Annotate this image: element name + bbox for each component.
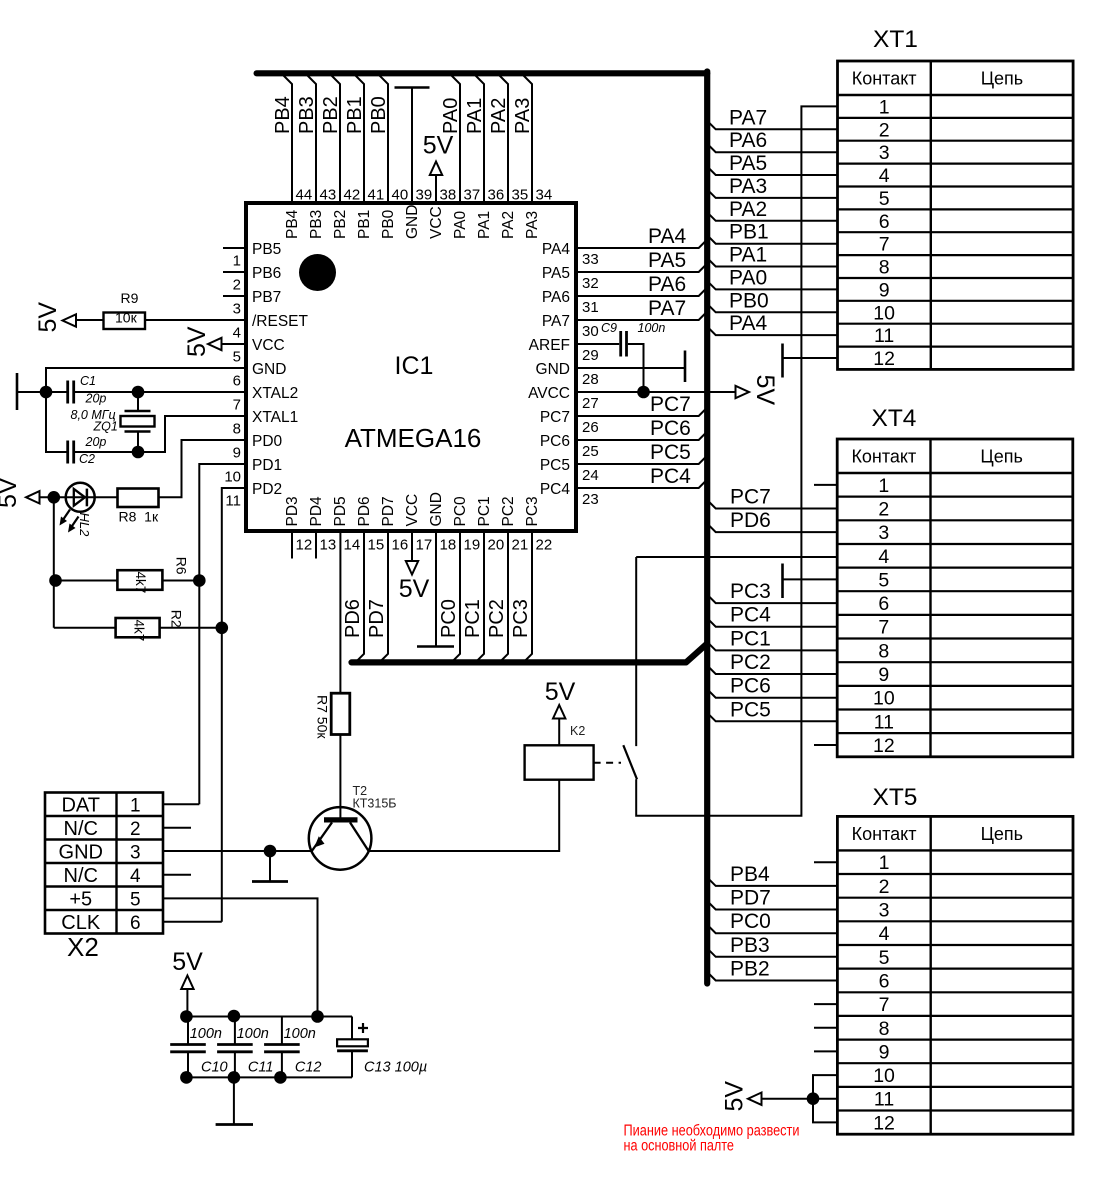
svg-text:PA2: PA2 xyxy=(488,98,510,134)
svg-text:7: 7 xyxy=(879,994,890,1016)
transistor T2 КТ315Б xyxy=(309,807,372,870)
wire pin 34 PA3 to bus xyxy=(524,76,533,204)
power 5V arrow (pin 5) xyxy=(208,338,222,350)
svg-text:ZQ1: ZQ1 xyxy=(93,420,118,434)
svg-text:Цепь: Цепь xyxy=(981,824,1023,844)
svg-text:12: 12 xyxy=(873,348,895,370)
svg-text:6: 6 xyxy=(233,373,241,390)
svg-text:VCC: VCC xyxy=(404,494,421,527)
svg-text:4: 4 xyxy=(233,325,241,342)
wire bus vertical xyxy=(704,72,710,984)
wire 5V to LED xyxy=(40,496,118,498)
power 5V arrow (K2) xyxy=(553,705,565,719)
wire net PB3 from bus to XT5 pin 5 xyxy=(707,948,837,957)
svg-text:3: 3 xyxy=(879,900,890,922)
capacitor C10 xyxy=(187,1017,189,1044)
wire C1 to pin 7 XTAL2 xyxy=(75,391,246,393)
terminal bar at XT1 pin 12 xyxy=(781,344,784,378)
svg-text:5V: 5V xyxy=(751,375,779,406)
svg-text:22: 22 xyxy=(536,537,553,554)
svg-text:34: 34 xyxy=(536,187,553,204)
ground bar (pin 39) xyxy=(395,86,430,89)
wire net PB2 from bus to XT5 pin 6 xyxy=(707,972,837,981)
wire R2 left xyxy=(54,627,116,629)
svg-text:PB6: PB6 xyxy=(252,265,281,282)
wire pin 37 PA0 to bus xyxy=(452,76,461,204)
svg-text:18: 18 xyxy=(440,537,457,554)
svg-text:PB0: PB0 xyxy=(368,96,390,134)
wire relay contact to XT1 pin 1 xyxy=(636,106,837,815)
svg-text:43: 43 xyxy=(320,187,337,204)
wire net PA6 from bus to XT1 pin 3 xyxy=(707,144,837,153)
svg-text:PA5: PA5 xyxy=(648,249,686,272)
node HL2 junction xyxy=(48,491,61,504)
wire net PC4 from bus to XT4 pin 7 xyxy=(707,618,837,627)
svg-text:PD0: PD0 xyxy=(252,433,283,450)
node XTAL1-crystal junction xyxy=(132,446,145,459)
svg-text:PA7: PA7 xyxy=(542,313,570,330)
wire pin 20 PC1 to bottom bus xyxy=(476,531,485,662)
wire relay K2 to 5V arrow xyxy=(558,719,560,746)
svg-text:C13 100µ: C13 100µ xyxy=(364,1060,427,1076)
wire net PA5 from bus to XT1 pin 4 xyxy=(707,167,837,176)
svg-text:PA0: PA0 xyxy=(452,210,469,239)
resistor R6 body xyxy=(117,570,162,590)
svg-text:PA4: PA4 xyxy=(729,312,767,335)
svg-text:2: 2 xyxy=(130,819,141,840)
svg-text:PA3: PA3 xyxy=(729,175,767,198)
wire R9 to pin 4 /RESET xyxy=(145,319,246,321)
svg-text:19: 19 xyxy=(464,537,481,554)
wire pin 27 AVCC to 5V arrow xyxy=(576,391,736,393)
svg-text:31: 31 xyxy=(582,299,599,316)
LED HL2 light arrows xyxy=(62,510,71,523)
node R6 right junction xyxy=(193,574,206,587)
svg-text:R7 50к: R7 50к xyxy=(315,695,331,739)
wire XT1 pin 12 to bar xyxy=(783,357,838,359)
svg-text:16: 16 xyxy=(392,537,409,554)
wire R7 to T2 base xyxy=(339,735,341,819)
wire net PC7 from bus to XT4 pin 2 xyxy=(707,500,837,509)
node crystal-gnd junction xyxy=(40,386,53,399)
wire pin 28 GND to ground bar xyxy=(576,367,684,369)
wire pin 3 stub xyxy=(223,295,246,297)
svg-text:2: 2 xyxy=(879,119,890,141)
svg-text:VCC: VCC xyxy=(252,337,285,354)
svg-text:10: 10 xyxy=(873,688,895,710)
node XT5 5V junction xyxy=(807,1092,820,1105)
svg-text:8: 8 xyxy=(233,421,241,438)
wire XT5 pin 9 stub xyxy=(814,1050,837,1052)
wire pin 39 GND to ground bar xyxy=(411,88,413,204)
svg-text:PA1: PA1 xyxy=(729,244,767,267)
node AVCC-C9 junction xyxy=(637,386,650,399)
svg-text:PB1: PB1 xyxy=(356,210,373,239)
svg-text:33: 33 xyxy=(582,251,599,268)
wire pin 17 VCC to 5V arrow xyxy=(411,531,413,561)
capacitor C1 plates xyxy=(66,381,69,404)
svg-text:AVCC: AVCC xyxy=(528,385,570,402)
terminal bar at XT4 pin 5 xyxy=(781,564,784,599)
wire net PC5 from bus to XT4 pin 11 xyxy=(707,713,837,722)
svg-text:PC5: PC5 xyxy=(730,698,771,721)
wire R6 left xyxy=(54,580,118,582)
wire pin 14 PD5 down to R7 xyxy=(339,531,341,693)
svg-text:XTAL1: XTAL1 xyxy=(252,409,298,426)
wire pin 41 PB1 to bus xyxy=(356,76,365,204)
svg-text:5: 5 xyxy=(878,569,889,591)
svg-text:PC5: PC5 xyxy=(650,441,691,464)
wire pin 15 PD6 to bottom bus xyxy=(356,531,365,662)
svg-text:5V: 5V xyxy=(423,132,454,160)
svg-text:12: 12 xyxy=(873,1112,895,1134)
IC1 pin-1 marker dot xyxy=(299,254,336,291)
power 5V arrow (pin 17) xyxy=(406,561,418,575)
svg-text:20p: 20p xyxy=(85,392,107,406)
svg-text:32: 32 xyxy=(582,275,599,292)
svg-text:1: 1 xyxy=(130,795,141,816)
wire pin 33 PA4 to bus xyxy=(576,240,707,249)
wire bus bottom horizontal xyxy=(352,644,708,663)
capacitor C12 xyxy=(281,1017,283,1044)
wire relay contact upper terminal xyxy=(635,557,637,746)
svg-text:20: 20 xyxy=(488,537,505,554)
resistor R7 body xyxy=(331,693,350,734)
svg-text:PC0: PC0 xyxy=(730,910,771,933)
wire pin 1 stub xyxy=(223,247,246,249)
svg-text:/RESET: /RESET xyxy=(252,313,309,330)
svg-text:14: 14 xyxy=(344,537,361,554)
wire pin 40 PB0 to bus xyxy=(380,76,389,204)
svg-text:5: 5 xyxy=(130,889,141,910)
svg-text:C9: C9 xyxy=(601,321,617,335)
wire pin 36 PA1 to bus xyxy=(476,76,485,204)
svg-text:PD1: PD1 xyxy=(252,457,282,474)
svg-text:CLK: CLK xyxy=(61,912,101,934)
svg-text:41: 41 xyxy=(368,187,385,204)
svg-text:7: 7 xyxy=(879,234,890,256)
svg-text:5V: 5V xyxy=(545,678,576,706)
svg-text:Контакт: Контакт xyxy=(852,824,917,844)
svg-text:5: 5 xyxy=(879,947,890,969)
wire net PB1 from bus to XT1 pin 7 xyxy=(707,235,837,244)
svg-text:PC6: PC6 xyxy=(540,433,570,450)
resistor R8 body xyxy=(118,489,159,508)
wire T2 collector to relay K2 xyxy=(369,780,560,851)
svg-text:K2: K2 xyxy=(570,724,585,738)
svg-text:7: 7 xyxy=(878,617,889,639)
svg-text:PA0: PA0 xyxy=(440,98,462,134)
resistor R9 body xyxy=(104,313,146,330)
wire net PA3 from bus to XT1 pin 5 xyxy=(707,189,837,198)
svg-text:7: 7 xyxy=(233,397,241,414)
wire net PA2 from bus to XT1 pin 6 xyxy=(707,212,837,221)
capacitor C13 polarity + xyxy=(358,1023,368,1033)
power 5V arrow (AVCC) xyxy=(736,386,750,398)
svg-text:PB2: PB2 xyxy=(730,957,770,980)
svg-text:11: 11 xyxy=(874,325,894,347)
svg-text:PA4: PA4 xyxy=(648,225,686,248)
wire net PC0 from bus to XT5 pin 4 xyxy=(707,925,837,934)
svg-text:4k7: 4k7 xyxy=(133,572,148,594)
svg-text:13: 13 xyxy=(320,537,337,554)
svg-text:PB0: PB0 xyxy=(729,289,769,312)
svg-text:9: 9 xyxy=(233,445,241,462)
svg-text:PD6: PD6 xyxy=(342,599,364,638)
svg-text:PC1: PC1 xyxy=(462,599,484,638)
wire pin 32 PA5 to bus xyxy=(576,264,707,273)
connector X2 table xyxy=(45,793,163,934)
svg-text:PB2: PB2 xyxy=(332,210,349,239)
wire C2 left to gnd node xyxy=(46,392,67,452)
svg-text:PB2: PB2 xyxy=(320,96,342,134)
wire pin 29 AREF to C9 xyxy=(576,343,619,345)
wire bus top horizontal xyxy=(257,70,708,76)
svg-text:C2: C2 xyxy=(79,452,95,466)
wire pin 6 GND left and down xyxy=(46,368,246,392)
svg-text:PC2: PC2 xyxy=(730,651,771,674)
svg-text:24: 24 xyxy=(582,467,599,484)
wire pin 11 PD2 down to X2 pin 6 xyxy=(222,488,246,922)
svg-text:PB7: PB7 xyxy=(252,289,281,306)
svg-text:PA6: PA6 xyxy=(729,129,767,152)
svg-text:6: 6 xyxy=(879,970,890,992)
svg-text:PA4: PA4 xyxy=(542,241,571,258)
wire cap bottom rail xyxy=(186,1076,352,1078)
svg-text:40: 40 xyxy=(392,187,409,204)
svg-text:9: 9 xyxy=(878,664,889,686)
svg-text:PD7: PD7 xyxy=(380,496,397,526)
wire net PD7 from bus to XT5 pin 3 xyxy=(707,901,837,910)
svg-text:29: 29 xyxy=(582,347,599,364)
wire XT5 bracket to 5V arrow xyxy=(761,1098,813,1100)
wire net PA4 from bus to XT1 pin 11 xyxy=(707,327,837,336)
svg-text:Контакт: Контакт xyxy=(852,69,917,89)
svg-text:5V: 5V xyxy=(34,302,62,333)
capacitor C2 plates xyxy=(66,441,69,464)
svg-text:+5: +5 xyxy=(69,888,92,910)
power 5V arrow (pin 38) xyxy=(430,162,442,176)
svg-text:C12: C12 xyxy=(295,1060,322,1076)
svg-text:44: 44 xyxy=(296,187,313,204)
svg-text:C10: C10 xyxy=(201,1060,228,1076)
svg-text:1: 1 xyxy=(879,852,890,874)
wire 5V arrow to pin 5 VCC xyxy=(222,343,247,345)
svg-text:PA2: PA2 xyxy=(729,198,767,221)
svg-text:100n: 100n xyxy=(284,1026,316,1042)
wire X2 pin 5 +5 to cap rail xyxy=(163,898,318,1016)
wire C9 to AVCC node xyxy=(628,344,644,392)
svg-text:11: 11 xyxy=(874,1089,894,1111)
capacitor C9 plates xyxy=(619,331,622,357)
svg-text:XTAL2: XTAL2 xyxy=(252,385,298,402)
wire ground bar to node xyxy=(16,391,67,393)
svg-text:PC4: PC4 xyxy=(540,481,571,498)
svg-text:AREF: AREF xyxy=(529,337,570,354)
wire net PB4 from bus to XT5 pin 2 xyxy=(707,877,837,886)
relay contact blade xyxy=(623,745,637,779)
svg-text:PA5: PA5 xyxy=(729,152,767,175)
node R6 left junction xyxy=(49,574,62,587)
svg-text:PC4: PC4 xyxy=(730,604,771,627)
svg-text:PC6: PC6 xyxy=(650,417,691,440)
wire XT5 pin 8 stub xyxy=(814,1027,837,1029)
wire net PB0 from bus to XT1 pin 10 xyxy=(707,304,837,313)
wire R2 right to PD2 line xyxy=(160,627,222,629)
wire XT5 pin 1 stub xyxy=(814,861,837,863)
svg-text:Контакт: Контакт xyxy=(851,447,916,467)
wire pin 25 PC6 to bus xyxy=(576,432,707,441)
svg-text:PD7: PD7 xyxy=(730,887,771,910)
svg-text:R6: R6 xyxy=(174,557,190,575)
wire pin 42 PB2 to bus xyxy=(332,76,341,204)
svg-text:GND: GND xyxy=(404,205,421,239)
svg-text:28: 28 xyxy=(582,371,599,388)
wire net PA7 from bus to XT1 pin 2 xyxy=(707,121,837,130)
svg-text:XT5: XT5 xyxy=(873,784,918,811)
svg-text:100n: 100n xyxy=(638,321,666,335)
wire pin 31 PA6 to bus xyxy=(576,288,707,297)
wire X2 pin 1 DAT to PD1 line xyxy=(163,803,199,805)
svg-text:PC5: PC5 xyxy=(540,457,570,474)
svg-text:1: 1 xyxy=(878,475,889,497)
svg-text:N/C: N/C xyxy=(64,865,98,887)
svg-text:GND: GND xyxy=(59,841,103,863)
svg-text:PD5: PD5 xyxy=(332,496,349,526)
svg-text:8: 8 xyxy=(878,640,889,662)
svg-text:4: 4 xyxy=(878,546,889,568)
relay K2 actuation dashed link xyxy=(594,762,621,764)
svg-text:DAT: DAT xyxy=(61,794,100,816)
svg-text:PA7: PA7 xyxy=(729,106,767,129)
svg-text:PB3: PB3 xyxy=(296,96,318,134)
svg-text:R2: R2 xyxy=(169,610,185,628)
svg-text:PB0: PB0 xyxy=(380,209,397,239)
svg-text:30: 30 xyxy=(582,323,599,340)
LED HL2 xyxy=(66,483,95,512)
svg-text:PC7: PC7 xyxy=(650,393,691,416)
svg-text:PC0: PC0 xyxy=(438,599,460,638)
svg-text:PC0: PC0 xyxy=(452,496,469,527)
wire pin 10 PD1 down to X2 pin 1 xyxy=(199,464,246,804)
svg-text:9: 9 xyxy=(879,1041,890,1063)
wire XT4 pin 12 stub xyxy=(814,744,837,746)
wire pin 19 PC0 to bottom bus xyxy=(452,531,461,662)
svg-text:2: 2 xyxy=(233,277,241,294)
svg-text:1: 1 xyxy=(879,96,890,118)
svg-text:10: 10 xyxy=(873,302,895,324)
svg-text:PC3: PC3 xyxy=(524,496,541,526)
svg-text:PB4: PB4 xyxy=(284,209,301,239)
wire pin 12 stub xyxy=(291,531,293,559)
svg-text:PC7: PC7 xyxy=(540,409,570,426)
capacitor C13 electrolytic xyxy=(351,1017,353,1040)
svg-text:5V: 5V xyxy=(172,948,203,976)
node cap rail junctions (top) xyxy=(180,1010,193,1023)
wire R8 to pin 9 PD0 xyxy=(159,440,247,497)
svg-text:2: 2 xyxy=(879,876,890,898)
svg-text:4k7: 4k7 xyxy=(132,620,147,642)
wire XT5 pins 10-12 bracket xyxy=(813,1075,837,1122)
svg-text:PD2: PD2 xyxy=(252,481,282,498)
wire pin 43 PB3 to bus xyxy=(308,76,317,204)
wire pin 22 PC3 to bottom bus xyxy=(524,531,533,662)
svg-text:25: 25 xyxy=(582,443,599,460)
svg-text:Цепь: Цепь xyxy=(980,447,1022,467)
svg-text:42: 42 xyxy=(344,187,361,204)
capacitor C11 xyxy=(234,1017,236,1044)
svg-text:PD6: PD6 xyxy=(730,509,771,532)
wire XT4 pin 5 to bar xyxy=(783,578,838,580)
svg-text:5V: 5V xyxy=(399,575,430,603)
svg-text:R9: R9 xyxy=(121,290,139,306)
svg-text:PC2: PC2 xyxy=(486,599,508,638)
svg-text:8: 8 xyxy=(879,1018,890,1040)
power 5V arrow (R9) xyxy=(63,314,77,326)
resistor R2 body xyxy=(116,618,160,637)
svg-text:17: 17 xyxy=(416,537,433,554)
svg-text:10к: 10к xyxy=(115,310,138,326)
wire pin 23 PC4 to bus xyxy=(576,480,707,489)
IC IC1 ATMEGA16 body xyxy=(246,203,576,531)
svg-text:PA5: PA5 xyxy=(542,265,570,282)
wire pin 21 PC2 to bottom bus xyxy=(500,531,509,662)
svg-text:3: 3 xyxy=(878,522,889,544)
svg-text:39: 39 xyxy=(416,187,433,204)
wire pin 8 XTAL1 to C2 xyxy=(75,416,246,452)
svg-text:4: 4 xyxy=(879,923,890,945)
power 5V arrow (HL2) xyxy=(26,491,40,503)
svg-text:IC1: IC1 xyxy=(395,352,434,380)
wire pin 18 GND down to ground bar xyxy=(435,531,437,646)
wire pin 44 PB4 to bus xyxy=(284,76,293,204)
svg-text:4: 4 xyxy=(879,165,890,187)
svg-text:15: 15 xyxy=(368,537,385,554)
svg-text:3: 3 xyxy=(130,842,141,863)
svg-text:PC2: PC2 xyxy=(500,496,517,526)
svg-text:8: 8 xyxy=(879,257,890,279)
wire net PC6 from bus to XT4 pin 10 xyxy=(707,689,837,698)
wire pin 35 PA2 to bus xyxy=(500,76,509,204)
svg-text:PA3: PA3 xyxy=(524,211,541,239)
svg-text:PB3: PB3 xyxy=(730,934,770,957)
svg-text:PA7: PA7 xyxy=(648,297,686,320)
wire net PA0 from bus to XT1 pin 9 xyxy=(707,281,837,290)
wire net PA1 from bus to XT1 pin 8 xyxy=(707,258,837,267)
svg-text:12: 12 xyxy=(873,735,895,757)
svg-text:PA1: PA1 xyxy=(476,211,493,239)
svg-text:37: 37 xyxy=(464,187,481,204)
svg-text:HL2: HL2 xyxy=(77,513,92,538)
svg-text:PA6: PA6 xyxy=(648,273,686,296)
svg-text:2: 2 xyxy=(878,498,889,520)
svg-text:11: 11 xyxy=(225,493,241,510)
wire pin 38 VCC to 5V arrow xyxy=(435,173,437,203)
svg-text:11: 11 xyxy=(874,711,894,733)
svg-text:10: 10 xyxy=(873,1065,895,1087)
wire XT4 pin 1 stub xyxy=(814,484,837,486)
svg-text:6: 6 xyxy=(878,593,889,615)
svg-text:1: 1 xyxy=(233,253,241,270)
crystal ZQ1 xyxy=(137,392,139,411)
connector XT5 table xyxy=(837,816,1073,1134)
svg-text:3: 3 xyxy=(879,142,890,164)
wire XT5 pin 7 stub xyxy=(814,1003,837,1005)
svg-text:XT1: XT1 xyxy=(873,26,918,53)
svg-text:PC4: PC4 xyxy=(650,465,691,488)
ground (T2 emitter) xyxy=(269,851,271,881)
svg-text:PB1: PB1 xyxy=(729,221,769,244)
